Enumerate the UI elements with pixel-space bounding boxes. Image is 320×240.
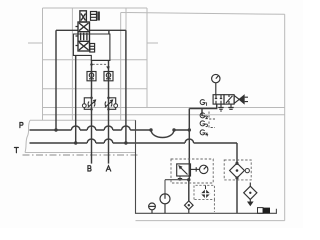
- loop drop to subplate: [108, 30, 110, 34]
- plate divider line y89: [43, 88, 148, 90]
- relief gauge: [191, 165, 208, 173]
- bridge over P at x91.5: [87, 126, 96, 130]
- node P feed: [54, 128, 57, 131]
- right position flow path: [226, 96, 233, 103]
- enclosure left edge: [120, 13, 122, 121]
- bridge over T at x189.3: [185, 139, 194, 143]
- valve pilot box: [80, 11, 87, 22]
- subplate outline: [73, 34, 110, 61]
- label G3: [200, 121, 207, 127]
- manifold band break line left: [25, 120, 30, 152]
- G riser: [188, 109, 191, 202]
- B work line: [91, 61, 93, 164]
- pressure gauge top: [212, 74, 220, 94]
- plate divider line y59: [43, 59, 148, 61]
- actuator arrow: [240, 95, 245, 104]
- crossed arrows position 1: [79, 23, 89, 31]
- label B: [88, 166, 91, 171]
- bridge over T at x108.5: [104, 139, 113, 143]
- tank outline: [136, 120, 277, 213]
- P line with hose dip and bridges: [30, 129, 190, 131]
- node T right: [124, 141, 127, 144]
- manifold band bottom edge: [25, 152, 136, 154]
- check valve A: [104, 72, 113, 81]
- node filter bottom: [235, 176, 238, 179]
- thermometer: [160, 194, 170, 214]
- pilot box arrow: [81, 14, 86, 21]
- centerline tick left: [28, 42, 43, 44]
- check valve B: [87, 72, 96, 81]
- hose dip on P line: [151, 130, 174, 138]
- filter unit enclosure: [224, 160, 251, 180]
- relief unit enclosure: [171, 159, 213, 183]
- label A: [106, 166, 111, 171]
- thermometer branch: [165, 180, 189, 194]
- side port ticks: [76, 27, 79, 46]
- centerline tick right: [147, 42, 158, 44]
- T line drop to filter: [236, 143, 238, 163]
- node hose right: [172, 128, 175, 131]
- junction dots: [54, 128, 191, 144]
- label G2: [200, 113, 207, 119]
- centre position bars: [81, 33, 87, 41]
- breather dashed box: [194, 185, 214, 212]
- tank block plate: [258, 208, 264, 214]
- plate right edge: [146, 8, 148, 108]
- relief valve square: [177, 164, 191, 176]
- node T mid: [74, 141, 77, 144]
- enclosure right edge: [284, 14, 286, 220]
- node filter top: [235, 162, 238, 165]
- bridge over P at x125.9: [122, 126, 131, 130]
- enclosure top edge: [121, 13, 285, 15]
- bridge over P at x108.5: [104, 126, 113, 130]
- T return riser right: [125, 30, 127, 143]
- label G4: [200, 130, 208, 136]
- bypass ball: [245, 169, 249, 173]
- G2 G3 dashed gauge taps: [209, 112, 215, 128]
- pilot line dashed crossover: [93, 64, 108, 67]
- manifold band top edge: [30, 119, 136, 121]
- P feed riser: [55, 30, 57, 130]
- pilot arrowhead down: [106, 66, 109, 70]
- plate left edge: [42, 8, 44, 120]
- G1 header line: [189, 104, 216, 108]
- bridge over T at x91.5: [87, 139, 96, 143]
- node P-G junction: [188, 128, 191, 131]
- plate divider line y114: [43, 114, 285, 116]
- label T: [14, 148, 18, 153]
- throttle check A: [105, 98, 116, 110]
- throttle check B: [84, 98, 96, 110]
- valve drain tank symbols: [218, 104, 233, 111]
- crossed arrows position 3: [79, 42, 89, 50]
- label G1: [200, 100, 206, 106]
- pilot arrowhead up: [90, 62, 93, 65]
- solenoid plug: [97, 12, 100, 21]
- plate divider vertical left: [71, 8, 73, 120]
- node G-drain: [187, 178, 190, 181]
- top loop line: [56, 29, 126, 31]
- valve main body: [78, 22, 90, 51]
- bridge over P at x75.7: [71, 126, 80, 130]
- plate divider line y107: [43, 107, 285, 109]
- solenoid bowtie actuator: [234, 95, 244, 103]
- G2 stub: [201, 109, 203, 117]
- plate divider vertical right: [125, 8, 127, 31]
- return filter diamond: [230, 163, 245, 178]
- T return riser mid: [75, 55, 77, 143]
- relief drain symbol: [178, 176, 182, 180]
- unloading valve body: [213, 95, 234, 104]
- enclosure bottom edge: [136, 220, 285, 222]
- solenoid top: [91, 12, 97, 21]
- chain line (drain boundary): [23, 154, 140, 156]
- T line with bridges: [30, 142, 238, 144]
- plate outline top edge: [43, 7, 148, 9]
- level gauge: [149, 203, 156, 213]
- label P: [20, 123, 23, 128]
- filler arrow: [247, 202, 254, 207]
- left position blocked ports: [216, 95, 221, 104]
- A work line: [108, 61, 110, 164]
- solenoid bottom: [90, 44, 95, 53]
- node hose left: [149, 128, 152, 131]
